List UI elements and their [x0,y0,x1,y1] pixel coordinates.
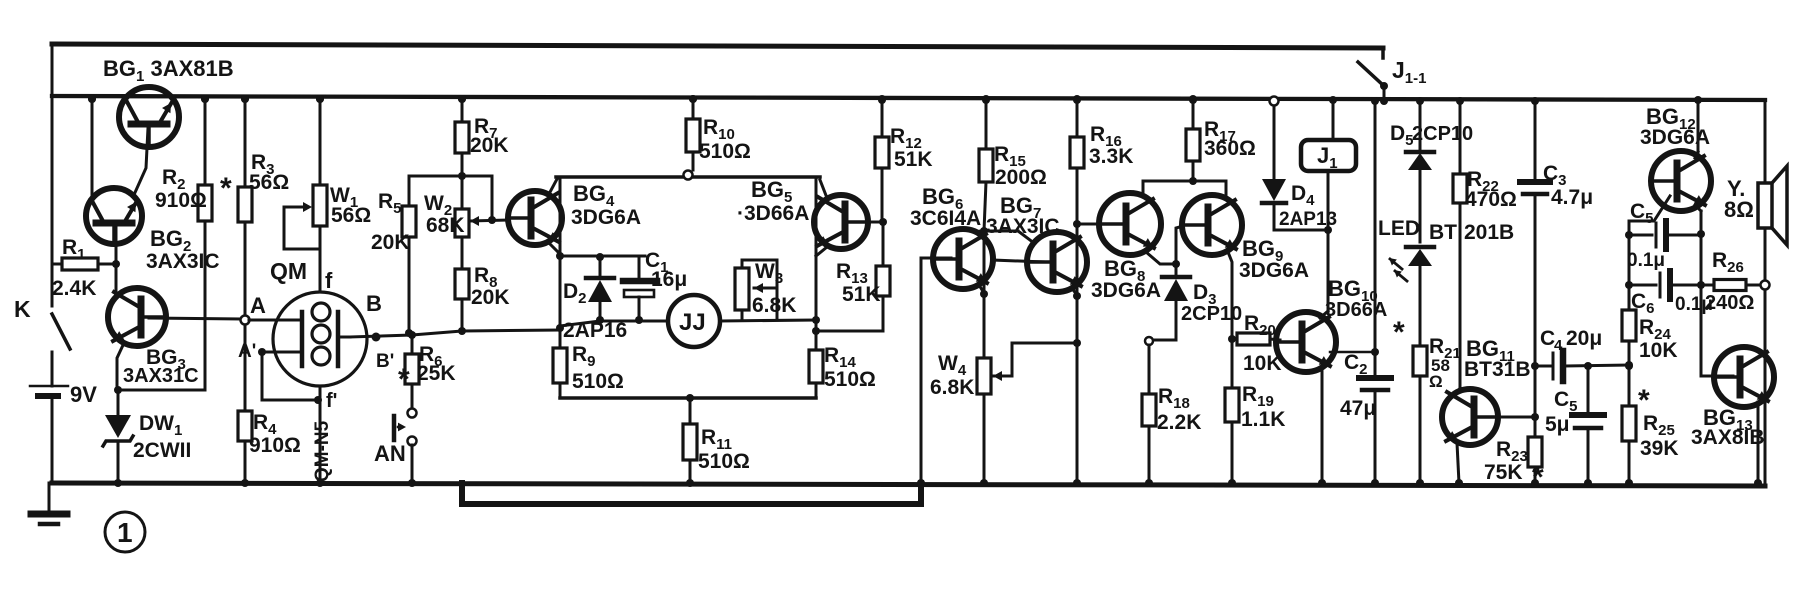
wire left border [51,45,54,306]
diode D4 [1262,97,1286,231]
svg-text:4.7μ: 4.7μ [1551,186,1593,209]
wire bottom rail [52,483,1765,486]
label R23 [1496,438,1528,465]
label R21 [1429,335,1461,362]
svg-text:8Ω: 8Ω [1724,197,1754,222]
wire box right [815,177,818,398]
transistor BG4 [508,191,562,245]
speaker Y [1758,166,1787,245]
label R18 [1158,385,1190,412]
resistor R20 [1232,333,1280,345]
svg-text:51K: 51K [894,148,933,171]
resistor R22 [1453,97,1467,390]
resistor R18 [1142,345,1156,487]
svg-text:0.1μ: 0.1μ [1627,250,1665,271]
label D3 value [1181,303,1242,325]
svg-text:3D66A: 3D66A [1325,299,1387,321]
svg-text:BT: BT [1429,221,1457,244]
capacitor C4 [1531,351,1633,381]
transistor BG9 [1182,195,1242,255]
svg-text:*: * [1532,461,1544,494]
relay J1 [1301,96,1356,230]
resistor R21 [1413,346,1427,487]
potentiometer W1 [313,95,327,292]
label C6 value [1675,294,1713,315]
transistor BG8 [1099,193,1161,255]
potentiometer W4 [977,231,991,487]
wire box top [556,175,820,179]
svg-text:20K: 20K [470,134,509,157]
wire BG8 base [1077,223,1117,226]
label R9 [572,343,596,370]
wire J1 to BG10 [1327,230,1330,312]
label W2 [424,192,452,219]
transistor BG3 [108,288,166,346]
node B [366,291,394,372]
resistor R15 [979,95,993,231]
label R15 value [995,166,1047,189]
label R18 value [1157,411,1201,434]
wire A prime to f prime [262,352,322,404]
wire DW1 top to R2 [114,386,205,394]
wire D3 to BG9 base [1176,226,1183,264]
svg-text:B': B' [376,351,394,372]
wire bottom loop [462,483,921,504]
label R6 value [417,362,456,385]
gas sensor QM [273,292,367,386]
label W1 value [331,204,371,227]
label R1 [62,236,86,263]
svg-text:2CP10: 2CP10 [1412,123,1473,145]
wire W1 wiper [284,202,318,249]
svg-text:LED: LED [1378,217,1420,240]
transistor BG10 [1276,312,1336,372]
svg-text:510Ω: 510Ω [698,450,750,473]
transistor BG7 [1027,232,1087,292]
label R10 value [699,140,751,163]
label R14 [824,344,857,371]
resistor R16 [1070,95,1084,487]
svg-text:2CWII: 2CWII [133,439,191,462]
resistor R25 [1622,366,1636,487]
label R2 [162,166,186,193]
svg-text:910Ω: 910Ω [249,434,301,457]
wire BG8 emitter [1146,252,1180,268]
svg-text:3AX31C: 3AX31C [123,365,199,387]
svg-text:56Ω: 56Ω [331,204,371,227]
label W3 [755,260,783,287]
svg-text:10K: 10K [1639,339,1678,362]
label BG6 3C6I4A [910,184,981,230]
label DW1 value [133,439,191,462]
led LED [1387,247,1434,346]
svg-text:B: B [366,291,382,316]
pushbutton AN [394,416,417,487]
label DW1 [139,412,182,439]
label R24 value [1639,339,1678,362]
wire BG6 base [917,258,951,487]
resistor R5 [402,176,416,333]
wire BG3 base to A [149,318,241,319]
label R14 value [824,368,876,391]
resistor R8 [455,269,469,331]
resistor R23 [1528,437,1542,487]
label J1-1 [1392,57,1426,87]
battery 9V [30,362,68,483]
label D3 [1193,281,1217,308]
label R9 value [572,370,624,393]
label 9V [70,382,97,407]
svg-text:·3D66A: ·3D66A [737,202,809,225]
wire BG13 base [1701,285,1733,376]
svg-text:360Ω: 360Ω [1204,137,1256,160]
label star R2 [220,172,232,205]
label R22 [1467,168,1499,195]
label R8 [474,264,498,291]
label D5 value [1412,123,1473,145]
svg-text:25K: 25K [417,362,456,385]
capacitor C3 [1520,97,1550,436]
label D4 [1291,182,1315,209]
node rail dots [88,95,1197,104]
label R13 [836,260,868,287]
label R15 [994,143,1026,170]
svg-text:16μ: 16μ [651,268,687,291]
svg-text:2.4K: 2.4K [52,277,96,300]
svg-text:510Ω: 510Ω [699,140,751,163]
label star R21 [1393,316,1405,349]
wire BG9 emitter [1228,252,1236,343]
svg-text:3C6I4A: 3C6I4A [910,207,981,230]
resistor R6 [405,336,419,418]
label C2 [1344,351,1368,378]
svg-text:20K: 20K [471,286,510,309]
wire BG11 collector [1457,388,1460,393]
wire R13 bottom [816,330,883,333]
resistor R14 [809,320,823,398]
capacitor C5 01u [1625,221,1701,249]
resistor R24 [1622,310,1636,370]
wire right border [1764,100,1767,483]
label R6 [419,343,443,370]
wire second rail [52,96,1765,100]
label BG10 3D66A [1325,276,1387,321]
label star R23 [1532,461,1544,494]
diode D5 [1406,97,1434,242]
label R20 [1244,312,1276,339]
svg-text:5μ: 5μ [1545,413,1570,436]
transistor BG1 [119,87,179,147]
svg-text:4: 4 [1554,337,1563,354]
label R12 value [894,148,933,171]
wire BG7 collector [984,220,1081,243]
meter JJ [668,295,720,347]
diode D3 [1145,264,1190,345]
ground [31,483,67,524]
label R5 value [371,231,410,254]
wire BG1 base lead [133,128,148,197]
label BG9 3DG6A [1239,236,1309,282]
label C4 value [1540,327,1602,354]
svg-text:K: K [14,296,31,322]
svg-text:1: 1 [117,517,133,548]
label star R6 [398,363,410,396]
svg-text:3AX8IB: 3AX8IB [1691,426,1765,449]
label C5 5u [1554,388,1578,415]
label C6 [1631,290,1655,317]
wire BG6 emitter [979,285,988,298]
transistor BG2 [86,188,142,244]
wire BG12 collector [1694,96,1702,158]
svg-text:3DG6A: 3DG6A [1239,259,1309,282]
label BG12 3DG6A [1640,104,1710,149]
label BG3 3AX31C [123,346,199,387]
label R25 value [1640,437,1679,460]
resistor R17 [1186,95,1200,181]
svg-text:201B: 201B [1464,221,1514,244]
label BG1 3AX81B [103,56,234,85]
transistor BG11 [1442,389,1498,445]
svg-text:9V: 9V [70,382,97,407]
resistor R2 [198,95,212,390]
svg-text:6.8K: 6.8K [930,376,974,399]
transistor BG13 [1714,347,1774,407]
label C3 value [1551,186,1593,209]
potentiometer W2 [455,176,469,269]
label R12 [890,125,922,152]
wire W4 wiper [993,339,1081,381]
svg-text:3DG6A: 3DG6A [571,206,641,229]
svg-text:47μ: 47μ [1340,397,1376,420]
label star R25 [1638,384,1650,417]
label R24 [1639,316,1672,343]
wire BG4 emitter [549,243,560,254]
resistor R7 [455,95,469,176]
wire D4 to J1 [1274,226,1332,234]
wire BG8 collector [1143,177,1197,197]
svg-text:A': A' [238,341,256,362]
wire BG4 collector [549,179,557,194]
wire BG2 collector [88,95,96,200]
wire box left [559,177,562,398]
svg-text:510Ω: 510Ω [824,368,876,391]
label R26 [1712,249,1744,276]
label D2 [563,280,587,307]
wire sensor output [350,327,560,339]
label BG7 3AX3IC [986,193,1060,238]
svg-text:39K: 39K [1640,437,1679,460]
label W1 [330,184,358,211]
label R10 [703,116,735,143]
svg-text:*: * [398,363,410,396]
svg-text:f': f' [326,390,337,412]
label BG13 3AX8IB [1691,405,1765,449]
wire BG10 emitter [1318,348,1379,487]
node A prime [238,320,300,362]
label BG5 3D66A [737,177,809,225]
label f prime [326,390,337,412]
capacitor C2 [1359,97,1391,487]
label D5 [1390,122,1414,149]
resistor R4 [238,325,252,487]
label K [14,296,31,322]
svg-text:3DG6A: 3DG6A [1091,279,1161,302]
svg-text:Ω: Ω [1429,372,1443,391]
label R4 [253,411,277,438]
svg-text:51K: 51K [842,283,881,306]
svg-text:240Ω: 240Ω [1705,292,1754,314]
wire BG12 emitter col [1697,235,1705,289]
potentiometer W3 [735,260,777,320]
label BT 201B [1429,221,1514,244]
transistor BG5 [814,195,868,249]
label D2 value [563,319,627,342]
label R3 value [249,171,289,194]
label C2 value [1340,397,1376,420]
wire BG11 emitter [1455,443,1463,487]
switch K [52,314,70,362]
label LED [1378,217,1420,240]
resistor R9 [553,330,567,398]
wire BG11 base [1484,413,1539,421]
capacitor C1 [596,253,657,324]
zener DW1 [103,390,133,487]
label J1 [1317,143,1338,172]
wire R7 node [409,172,492,180]
label R21 value [1429,356,1450,391]
wire BG6 collector [977,227,988,235]
label QM [270,258,307,284]
label Y [1727,176,1745,201]
svg-text:AN: AN [374,441,406,466]
label D4 value [1279,209,1337,230]
wire W2 wiper [470,176,508,226]
label BG8 3DG6A [1091,256,1161,302]
wire BG5 emitter [816,247,827,256]
resistor R10 [684,95,701,180]
svg-text:BT31B: BT31B [1464,358,1531,381]
wire BG7 emitter [1071,287,1081,300]
wire BG7 base [993,260,1044,262]
svg-text:3AX3IC: 3AX3IC [146,250,220,273]
label R11 value [698,450,750,473]
label AN [374,441,406,466]
label R1 value [52,277,96,300]
label W3 value [752,294,796,317]
label R19 value [1241,408,1285,431]
wire BG2 emitter [112,224,120,292]
svg-text:6.8K: 6.8K [752,294,796,317]
svg-text:1.1K: 1.1K [1241,408,1285,431]
svg-text:QM: QM [270,258,307,284]
label C5 01u value [1627,250,1665,271]
label C1 [645,249,669,276]
label R13 value [842,283,881,306]
label R17 value [1204,137,1256,160]
label R5 [378,190,402,217]
svg-text:QM-N5: QM-N5 [312,420,333,482]
svg-text:510Ω: 510Ω [572,370,624,393]
label R2 value [155,189,207,212]
label R19 [1242,383,1274,410]
label Y value [1724,197,1754,222]
label R3 [251,151,275,178]
label QM-N5 [312,420,333,482]
wire BG9 collector [1193,181,1226,198]
capacitor C6 [1625,271,1701,299]
svg-text:JJ: JJ [679,309,706,336]
wire BG5 collector [820,180,827,198]
wire BG10 collector [1320,311,1328,318]
resistor R12 [875,95,889,222]
wire BG12 emitter [1695,205,1705,238]
diode D2 [586,256,614,320]
label R11 [701,426,732,453]
wire top supply line [52,44,1383,48]
switch J1-1 [1358,48,1388,105]
label R16 [1090,123,1122,150]
label W4 [938,352,967,379]
resistor R13 [876,222,890,331]
svg-text:200Ω: 200Ω [995,166,1047,189]
svg-text:470Ω: 470Ω [1465,188,1517,211]
svg-text:A: A [250,293,266,318]
wire QM heater down [316,386,324,487]
label BG4 3DG6A [571,181,641,229]
label R17 [1204,118,1236,145]
wire box bottom [560,396,816,400]
label R22 value [1465,188,1517,211]
label C5 01u [1630,200,1654,227]
svg-text:f: f [325,268,333,293]
svg-text:20μ: 20μ [1566,327,1602,350]
label R25 [1643,412,1675,439]
label C5 5u value [1545,413,1570,436]
transistor BG12 [1651,151,1711,211]
resistor R1 [52,258,116,270]
label R8 value [471,286,510,309]
wire BG13 emitter [1754,402,1762,487]
label R20 value [1243,352,1282,375]
label circled 1 [105,512,145,552]
label W2 value [426,214,465,237]
wire BG3 emitter [117,343,124,390]
wire JJ left [556,321,668,332]
svg-text:BG1 3AX81B: BG1 3AX81B [103,56,234,85]
wire BG12 base [1629,196,1670,310]
capacitor C5 5u [1572,366,1604,487]
label W4 value [930,376,974,399]
svg-text:75K: 75K [1484,461,1523,484]
svg-text:20K: 20K [371,231,410,254]
label f [325,268,333,293]
resistor R26 [1701,280,1770,291]
resistor R11 [683,394,697,487]
svg-text:*: * [1393,316,1405,349]
label R7 value [470,134,509,157]
svg-text:3DG6A: 3DG6A [1640,126,1710,149]
label R23 value [1484,461,1523,484]
wire JJ right [720,316,820,324]
svg-text:*: * [220,172,232,205]
label R7 [474,115,498,142]
label BG2 3AX3IC [146,226,220,273]
svg-text:56Ω: 56Ω [249,171,289,194]
transistor BG6 [933,229,993,289]
node A [241,293,267,325]
svg-text:10K: 10K [1243,352,1282,375]
wire BG5 base [853,218,887,226]
